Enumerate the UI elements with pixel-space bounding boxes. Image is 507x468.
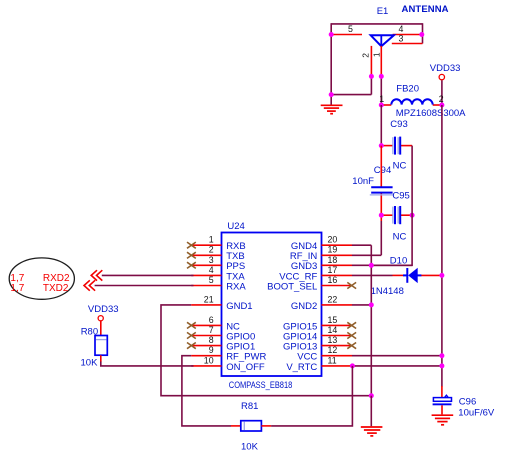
- svg-text:C94: C94: [374, 165, 391, 176]
- pin 14 GPIO14 stub: [322, 335, 353, 337]
- junction dot ground branch: [329, 92, 334, 97]
- junction dot E1 pin5: [329, 32, 334, 37]
- svg-text:VDD33: VDD33: [88, 304, 119, 315]
- pin 7 GPIO0 stub: [191, 335, 221, 337]
- no-connect X pin 1: [187, 242, 196, 248]
- junction dot D10 anode on VDD rail: [439, 273, 444, 278]
- wire C95 left node down to RF_IN row: [380, 221, 382, 255]
- junction dot FB20 pin1 node: [379, 103, 384, 108]
- pin 19 RF_IN stub: [322, 254, 353, 256]
- svg-text:4: 4: [399, 24, 404, 34]
- pin 21 GND1 stub: [191, 304, 221, 306]
- svg-text:1: 1: [379, 94, 384, 104]
- svg-text:GND2: GND2: [291, 301, 317, 312]
- capacitor C93 (NC): [381, 119, 412, 171]
- svg-text:3: 3: [399, 34, 404, 44]
- no-connect X pin 15: [347, 322, 356, 328]
- svg-text:GND1: GND1: [226, 301, 252, 312]
- svg-text:7: 7: [209, 325, 214, 335]
- pin 4 of E1: [393, 34, 422, 36]
- svg-text:BOOT_SEL: BOOT_SEL: [267, 281, 317, 292]
- pin 4 TXA stub: [191, 274, 221, 276]
- svg-text:RXA: RXA: [226, 281, 246, 292]
- wire pin1 down to FB20 node: [380, 76, 382, 105]
- wire ground node drop: [370, 396, 372, 427]
- wire R81 to V_RTC riser: [271, 366, 352, 426]
- junction dot C95 right: [410, 213, 415, 218]
- svg-text:17: 17: [328, 265, 338, 275]
- svg-text:12: 12: [328, 345, 338, 355]
- pin 10 ON_OFF stub: [191, 365, 221, 367]
- svg-text:COMPASS_EB818: COMPASS_EB818: [229, 380, 292, 390]
- wire RXA row: [95, 285, 194, 287]
- pin 20 GND4 stub: [322, 244, 353, 246]
- pin 18 GND3 stub: [322, 264, 353, 266]
- wire GND4 over to ground column: [352, 244, 371, 246]
- svg-text:NC: NC: [393, 160, 407, 171]
- junction dot FB20 pin2 node: [439, 103, 444, 108]
- wire VCC_RF to D10 cathode: [352, 274, 393, 276]
- junction dot E1 pin2: [369, 74, 374, 79]
- svg-text:10K: 10K: [81, 358, 99, 369]
- pin 2 TXB stub: [191, 254, 221, 256]
- svg-text:2: 2: [361, 53, 371, 58]
- svg-text:2: 2: [209, 245, 214, 255]
- svg-text:C95: C95: [392, 191, 409, 202]
- pin 3 PPS stub: [191, 264, 221, 266]
- U24 right pin names: [267, 241, 317, 373]
- pin 12 VCC stub: [322, 355, 353, 357]
- pin 17 VCC_RF stub: [322, 274, 353, 276]
- U24 right pin numbers: [328, 235, 338, 366]
- junction dot GND2 at ground column: [369, 302, 374, 307]
- svg-text:1N4148: 1N4148: [371, 286, 404, 297]
- no-connect X pin 7: [187, 332, 196, 338]
- svg-text:ANTENNA: ANTENNA: [402, 4, 449, 15]
- wire ground branch horizontal: [331, 94, 371, 96]
- pin 16 BOOT_SEL stub: [322, 285, 353, 287]
- pin 9 RF_PWR stub: [191, 355, 221, 357]
- wire GND2 to ground column: [352, 304, 371, 306]
- wire E1 top bus (pins 5-4-3 tie): [331, 23, 422, 25]
- svg-text:21: 21: [204, 294, 214, 304]
- ground symbol at C96: [432, 415, 454, 425]
- U24 left pin numbers: [204, 235, 214, 366]
- svg-text:10uF/6V: 10uF/6V: [458, 408, 495, 419]
- junction dot VCC on VDD33 rail: [439, 353, 444, 358]
- svg-text:5: 5: [348, 24, 353, 34]
- diode D10 1N4148: [371, 256, 442, 298]
- wire RF_IN over and up to C94/C95 node: [352, 254, 381, 256]
- svg-text:8: 8: [209, 335, 214, 345]
- no-connect X pin 3: [187, 262, 196, 268]
- svg-text:1,7: 1,7: [10, 283, 24, 294]
- junction dot V_RTC on VDD33 rail: [439, 363, 444, 368]
- wire E1 left vertical to ground: [330, 23, 332, 104]
- wire VCC to VDD33 rail: [352, 355, 442, 357]
- svg-text:1: 1: [372, 52, 382, 57]
- svg-text:19: 19: [328, 245, 338, 255]
- svg-text:E1: E1: [377, 6, 389, 17]
- svg-text:1: 1: [209, 235, 214, 245]
- capacitor C96 10uF/6V polarized: [433, 395, 495, 418]
- pin 6 NC stub: [191, 324, 221, 326]
- antenna symbol of E1: [371, 35, 394, 46]
- svg-text:2: 2: [439, 94, 444, 104]
- U24 left pin names: [226, 241, 266, 373]
- svg-text:FB20: FB20: [396, 84, 419, 95]
- power symbol VDD33 top: [430, 63, 461, 80]
- pin 5 RXA stub: [191, 285, 221, 287]
- no-connect X pin 13: [347, 343, 356, 349]
- junction dot V_RTC at R81 riser: [350, 363, 355, 368]
- svg-text:5: 5: [209, 275, 214, 285]
- wire VDD33 to FB20 node: [441, 80, 443, 105]
- wire ground column GND4-GND3-GND2 down to ground node: [370, 245, 372, 396]
- svg-text:9: 9: [209, 345, 214, 355]
- svg-text:C93: C93: [390, 119, 407, 130]
- pin 13 GPIO13 stub: [322, 345, 353, 347]
- wire VDD33 rail down right side: [441, 105, 443, 387]
- wire TXA row: [102, 274, 194, 276]
- wire V_RTC to VDD33 rail: [352, 365, 442, 367]
- resistor R80 10K pull-up: [81, 321, 108, 369]
- junction dot ground node: [369, 393, 374, 398]
- pin 11 V_RTC stub: [322, 365, 353, 367]
- svg-text:C96: C96: [459, 396, 476, 407]
- no-connect X pin 14: [347, 332, 356, 338]
- svg-text:10nF: 10nF: [352, 176, 374, 187]
- wire FB20 node down to C93/C94 node: [380, 105, 382, 146]
- port ellipse RXD2/TXD2: [9, 258, 74, 299]
- svg-text:13: 13: [328, 335, 338, 345]
- chevron arrows RXA row: [84, 280, 95, 290]
- IC U24 COMPASS_EB818 body: [222, 221, 322, 390]
- ground symbol at E1: [321, 105, 343, 113]
- junction dot C95 left: [379, 213, 384, 218]
- no-connect X pin 8: [187, 343, 196, 349]
- pin 5 of E1: [331, 34, 362, 36]
- no-connect X pin 2: [187, 252, 196, 258]
- svg-text:11: 11: [328, 355, 337, 365]
- junction dot E1 pin4: [419, 32, 424, 37]
- svg-text:MPZ1608S300A: MPZ1608S300A: [396, 108, 466, 119]
- junction dot C93 left: [379, 143, 384, 148]
- no-connect X pin 16: [347, 282, 356, 288]
- wire VDD33 rail red tail to C96: [441, 386, 443, 398]
- junction dot E1 pin1: [379, 74, 384, 79]
- svg-text:NC: NC: [393, 232, 407, 243]
- svg-text:3: 3: [209, 255, 214, 265]
- wire E1 right vertical pin4/pin3: [422, 23, 424, 43]
- svg-text:6: 6: [209, 315, 214, 325]
- pin 15 GPIO15 stub: [322, 324, 353, 326]
- pin 22 GND2 stub: [322, 304, 353, 306]
- junction dot GND3 at ground column: [369, 263, 374, 268]
- wire RF_PWR down-left to R81: [182, 356, 231, 426]
- ground symbol center: [361, 427, 383, 436]
- wire pin2 to ground corner: [370, 76, 372, 94]
- no-connect X pin 6: [187, 322, 196, 328]
- pin 3 of E1: [392, 43, 423, 45]
- wire NC-cap right rail down to GND3 row: [371, 146, 412, 266]
- svg-text:20: 20: [328, 235, 338, 245]
- svg-text:TXD2: TXD2: [43, 283, 69, 294]
- wire GND3 over to NC-cap rail: [352, 264, 412, 266]
- svg-text:16: 16: [328, 275, 338, 285]
- svg-text:ON_OFF: ON_OFF: [226, 362, 265, 373]
- capacitor C94 10nF: [352, 146, 394, 221]
- svg-text:22: 22: [328, 294, 338, 304]
- pin 1 of E1: [380, 46, 382, 77]
- pin 1 RXB stub: [191, 244, 221, 246]
- svg-text:VDD33: VDD33: [430, 63, 461, 74]
- svg-text:V_RTC: V_RTC: [286, 362, 317, 373]
- svg-text:18: 18: [328, 255, 338, 265]
- capacitor C95 (NC): [381, 191, 412, 243]
- pin 8 GPIO1 stub: [191, 345, 221, 347]
- svg-text:U24: U24: [227, 221, 244, 232]
- power symbol VDD33 left: [88, 304, 119, 321]
- chevron arrows TXA row: [91, 270, 102, 280]
- pin 2 of E1: [370, 46, 372, 77]
- svg-text:R81: R81: [241, 401, 258, 412]
- svg-text:4: 4: [209, 265, 214, 275]
- svg-text:10K: 10K: [241, 441, 259, 452]
- wire R80 to ON_OFF pin 10: [101, 362, 194, 366]
- ferrite bead FB20 MPZ1608S300A: [379, 84, 466, 119]
- resistor R81 10K: [231, 401, 271, 452]
- svg-text:15: 15: [328, 315, 338, 325]
- svg-text:14: 14: [328, 325, 338, 335]
- wire GND1 route down and across to ground node: [161, 305, 371, 396]
- svg-text:10: 10: [204, 355, 214, 365]
